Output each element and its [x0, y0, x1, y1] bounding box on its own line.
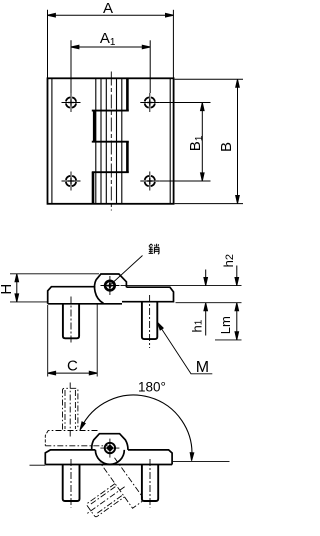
knuckle curl line 5: [121, 79, 123, 203]
plate right inner edge line: [169, 79, 171, 203]
dimension B line: [237, 80, 239, 203]
svg-text:B1: B1: [187, 135, 205, 151]
dimension H line: [16, 274, 18, 301]
dimension B1 extension line bottom: [159, 180, 210, 182]
hole top-right: [140, 93, 159, 112]
phantom folded leaf (180 deg position): [45, 383, 107, 446]
left leaf (side view): [48, 287, 122, 304]
knuckle curl line 4: [116, 79, 118, 203]
dimension B extension line bottom: [175, 203, 243, 205]
dimension H extension line top: [10, 273, 99, 275]
svg-text:A1: A1: [100, 30, 116, 48]
knuckle barrel lower arc: [95, 450, 124, 464]
dimension A extension line left: [47, 10, 49, 78]
knuckle barrel edge seg4 left: [92, 172, 95, 203]
right leaf (open view): [128, 450, 172, 465]
left stud (open view): [63, 465, 80, 502]
knuckle boss (open view): [92, 434, 128, 450]
dimension A1 extension line left: [70, 40, 72, 93]
knuckle segment cut line 3: [92, 171, 129, 173]
left stud (side view): [63, 304, 79, 339]
right stud centerline: [149, 295, 151, 348]
arc landing line: [173, 460, 230, 462]
left stud centerline (open view): [70, 459, 72, 508]
hinge plate outline (plan view): [48, 78, 174, 204]
plate left inner edge line: [51, 79, 53, 203]
pin label leader line: [111, 256, 142, 285]
knuckle curl line 1: [95, 79, 97, 203]
dimension A1 extension line right: [149, 40, 151, 93]
hole top-left: [62, 93, 81, 112]
pin centerline extension (right): [121, 285, 242, 287]
dimension A extension line right: [172, 10, 174, 78]
svg-text:180°: 180°: [138, 379, 166, 394]
right stud (side view): [142, 302, 157, 339]
dimension B1 extension line top: [159, 102, 210, 104]
right leaf (side view): [122, 287, 174, 302]
knuckle boss (side view): [95, 274, 127, 303]
dimension C extension line right: [96, 305, 98, 377]
right stud (open view): [142, 465, 158, 502]
pin centerline (plan view): [110, 72, 112, 211]
dimension h2 line: [236, 266, 238, 285]
dimension B1 line: [201, 103, 203, 181]
hinge pin (side view): [101, 276, 120, 295]
dimension C extension line left: [47, 305, 49, 377]
left leaf (open view): [45, 450, 172, 465]
knuckle segment cut line 1: [92, 110, 129, 112]
180-degree rotation arc: [81, 395, 192, 460]
dimension A1 line: [72, 46, 150, 48]
dimension h1 line: [205, 270, 207, 285]
stud tip extension line: [215, 339, 242, 341]
dimension B extension line top: [175, 78, 243, 80]
hole bottom-right: [140, 172, 159, 191]
dimension H extension line bottom: [10, 301, 48, 303]
left stud centerline: [70, 297, 72, 345]
dimension Lm line: [236, 303, 238, 339]
knuckle barrel edge seg3 right: [126, 142, 129, 173]
dimension A line: [48, 14, 173, 16]
pin label (xiao) drawn glyph: [149, 244, 160, 254]
baseline extension left: [30, 464, 46, 466]
dimension C line: [48, 372, 96, 374]
hinge pin (open view): [100, 439, 119, 458]
svg-text:h2: h2: [221, 254, 236, 267]
svg-text:B: B: [218, 142, 235, 152]
svg-text:h1: h1: [190, 319, 205, 332]
leaf bottom extension line (right): [176, 302, 242, 304]
svg-text:H: H: [0, 284, 15, 295]
knuckle barrel edge seg1 right: [126, 79, 129, 111]
knuckle barrel edge seg2 left: [93, 111, 96, 142]
svg-text:C: C: [67, 357, 78, 374]
right stud centerline (open view): [149, 459, 151, 508]
phantom leaf rotated 63 (intermediate position): [66, 454, 144, 532]
knuckle curl line 2: [100, 79, 102, 203]
hole bottom-left: [62, 172, 81, 191]
thread label M leader: [158, 323, 213, 374]
svg-text:Lm: Lm: [218, 316, 233, 334]
svg-text:A: A: [103, 0, 113, 17]
knuckle curl line 3: [105, 79, 107, 203]
svg-text:M: M: [196, 359, 209, 376]
knuckle segment cut line 2: [92, 141, 129, 143]
